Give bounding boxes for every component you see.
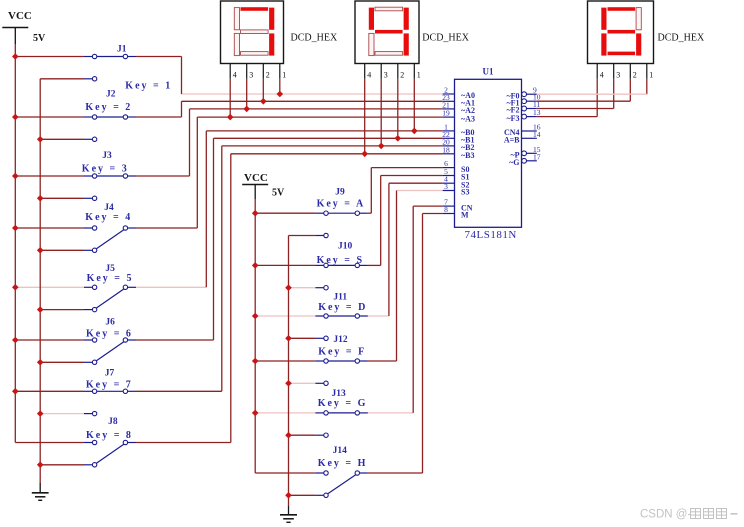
svg-text:~F3: ~F3 [506,114,519,123]
svg-text:A=B: A=B [504,136,520,145]
svg-text:J7: J7 [105,368,115,378]
svg-text:J8: J8 [108,417,118,427]
svg-text:14: 14 [533,130,541,139]
svg-text:Key = A: Key = A [317,199,366,210]
svg-text:Key = D: Key = D [318,302,367,313]
svg-text:Key = 6: Key = 6 [86,328,133,339]
svg-text:S3: S3 [461,188,469,197]
svg-text:J1: J1 [117,45,127,55]
svg-text:1: 1 [417,71,421,80]
svg-text:Key = H: Key = H [318,458,368,469]
svg-text:3: 3 [249,71,253,80]
svg-text:J6: J6 [105,317,115,327]
svg-text:J11: J11 [333,293,347,303]
svg-text:8: 8 [444,205,448,214]
svg-text:J10: J10 [338,242,353,252]
svg-text:5V: 5V [33,33,46,44]
svg-text:19: 19 [442,109,450,118]
svg-text:J3: J3 [102,151,112,161]
svg-text:74LS181N: 74LS181N [465,229,517,241]
svg-text:DCD_HEX: DCD_HEX [422,33,469,44]
svg-text:Key = 1: Key = 1 [125,81,172,92]
svg-text:5V: 5V [272,188,285,199]
svg-text:3: 3 [616,71,620,80]
svg-text:Key = S: Key = S [317,255,364,266]
svg-text:Key = 5: Key = 5 [87,273,134,284]
svg-text:J2: J2 [106,89,116,99]
svg-text:J12: J12 [333,335,348,345]
svg-text:3: 3 [444,182,448,191]
svg-text:1: 1 [649,71,653,80]
svg-text:M: M [461,211,469,220]
svg-text:4: 4 [233,71,237,80]
svg-text:Key = G: Key = G [318,398,368,409]
svg-text:~G: ~G [509,158,519,167]
svg-text:2: 2 [266,71,270,80]
svg-text:~A3: ~A3 [461,114,475,123]
svg-text:2: 2 [400,71,404,80]
svg-text:1: 1 [282,71,286,80]
svg-text:CSDN @-: CSDN @- [640,509,691,521]
svg-text:DCD_HEX: DCD_HEX [291,33,338,44]
svg-text:J14: J14 [333,446,348,456]
svg-text:VCC: VCC [8,10,32,22]
svg-text:4: 4 [600,71,604,80]
svg-text:Key = 8: Key = 8 [86,430,133,441]
svg-text:17: 17 [533,152,541,161]
svg-text:U1: U1 [483,67,494,77]
svg-text:Key = F: Key = F [318,347,366,358]
svg-text:~B3: ~B3 [461,151,475,160]
svg-text:J9: J9 [335,188,345,198]
svg-text:Key = 4: Key = 4 [85,212,132,223]
svg-text:18: 18 [442,145,450,154]
svg-text:DCD_HEX: DCD_HEX [658,33,705,44]
svg-text:Key = 2: Key = 2 [85,102,132,113]
svg-text:2: 2 [633,71,637,80]
svg-text:Key = 7: Key = 7 [86,380,133,391]
svg-text:13: 13 [533,108,541,117]
svg-text:3: 3 [384,71,388,80]
svg-text:VCC: VCC [244,172,268,184]
svg-text:4: 4 [367,71,371,80]
svg-text:Key = 3: Key = 3 [82,164,129,175]
